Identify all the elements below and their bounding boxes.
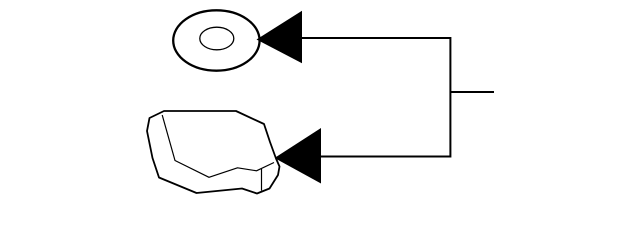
cover outline <box>147 111 280 194</box>
wire: right tick <box>450 91 494 93</box>
wire: bottom horizontal leader <box>320 156 450 158</box>
cover inner crease line <box>162 115 274 177</box>
wire: vertical leader <box>449 37 451 158</box>
callout arrow 2 (bottom) <box>275 128 322 184</box>
grommet inner ellipse <box>200 27 234 50</box>
grommet outer ellipse <box>173 10 259 70</box>
cover flange edge line <box>261 169 263 191</box>
callout arrow 1 (top) <box>257 11 303 64</box>
wire: top horizontal leader <box>301 37 450 39</box>
